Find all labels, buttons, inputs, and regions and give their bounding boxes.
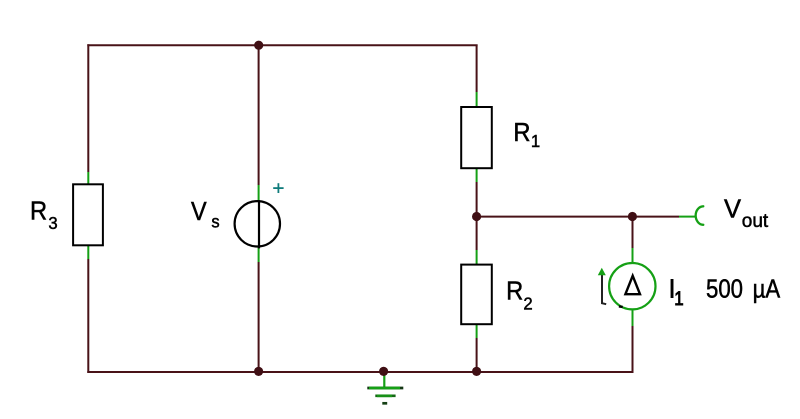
svg-text:R: R xyxy=(30,198,47,226)
svg-text:s: s xyxy=(211,211,220,232)
svg-text:R: R xyxy=(506,278,523,306)
svg-text:500: 500 xyxy=(706,275,743,304)
svg-text:R: R xyxy=(513,119,530,147)
svg-text:1: 1 xyxy=(531,130,540,151)
svg-text:1: 1 xyxy=(674,288,683,309)
svg-text:µA: µA xyxy=(753,275,781,304)
svg-text:V: V xyxy=(191,198,207,226)
svg-text:V: V xyxy=(724,195,741,223)
svg-text:out: out xyxy=(742,211,769,232)
svg-text:3: 3 xyxy=(48,213,57,234)
svg-text:2: 2 xyxy=(523,293,532,314)
